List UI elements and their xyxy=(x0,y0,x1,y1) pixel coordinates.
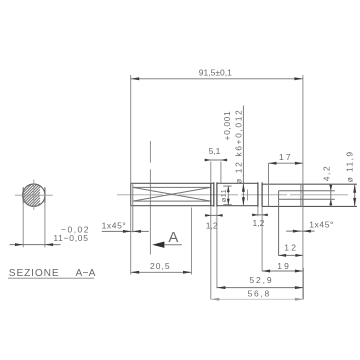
dim o12k6 arrows xyxy=(242,183,245,192)
svg-text:11−0,05: 11−0,05 xyxy=(53,233,88,243)
section A-A centerline horizontal xyxy=(15,194,53,196)
dim 17 dimension line xyxy=(269,162,303,164)
end of flats line + long extension down to 56,8 xyxy=(210,162,212,300)
main centerline of shaft xyxy=(117,194,348,196)
title underline xyxy=(8,277,94,279)
dim o11 tick bottom xyxy=(223,204,231,206)
flats region inner top line xyxy=(133,186,211,188)
right end face + long extension line xyxy=(302,75,304,300)
dim 1,2 right arrows xyxy=(252,214,268,216)
groove 2 right wall + extension down to 19 xyxy=(261,182,263,206)
flats cross diagonal 2 xyxy=(133,187,211,201)
svg-text:1x45°: 1x45° xyxy=(309,219,334,229)
dim 1,2 left arrows xyxy=(205,214,223,216)
dim 12 arrows xyxy=(279,254,287,257)
svg-text:91,5±0,1: 91,5±0,1 xyxy=(199,67,232,77)
centerline tick in mid section xyxy=(247,190,249,201)
shaft right section top edge + extension xyxy=(262,183,357,185)
dim 17 arrows xyxy=(269,162,277,165)
chamfer label 1x45 right leader xyxy=(286,230,314,232)
svg-text:SEZIONE: SEZIONE xyxy=(9,268,60,279)
svg-text:5,1: 5,1 xyxy=(209,146,221,156)
chamfer label 1x45 left leader xyxy=(102,230,149,232)
dim 5,1 extension right xyxy=(220,162,222,184)
svg-text:ø 12 k6+0,012: ø 12 k6+0,012 xyxy=(233,109,243,184)
svg-text:1x45°: 1x45° xyxy=(102,220,127,230)
groove 1 left wall xyxy=(213,182,215,206)
section A-A centerline vertical xyxy=(33,180,35,210)
dim 52,9 extension right low xyxy=(302,268,304,300)
axial hole top line xyxy=(279,190,335,192)
dim 11 extension line right xyxy=(44,203,46,248)
dim 20,5 dimension line xyxy=(131,271,192,273)
dim o11 tick top xyxy=(223,185,231,187)
dim 91,5 dimension line xyxy=(131,78,303,80)
svg-text:+0,001: +0,001 xyxy=(222,111,232,141)
dim 19 dimension line xyxy=(262,270,303,272)
shaft top edge left sections xyxy=(131,182,214,184)
dim 11 extension line left xyxy=(22,203,24,248)
svg-text:A: A xyxy=(168,229,178,246)
flats cross diagonal 1 xyxy=(133,187,211,201)
dim 52,9 dimension line xyxy=(217,287,304,289)
dim 11 dimension line xyxy=(10,244,61,246)
dim o11,9 dimension line xyxy=(354,184,356,206)
dim 91,5 arrows xyxy=(131,77,140,80)
svg-text:12: 12 xyxy=(284,243,298,253)
shaft bottom edge left sections xyxy=(131,205,214,207)
svg-text:17: 17 xyxy=(279,152,293,162)
dim o11 dimension line xyxy=(227,186,229,205)
chamfer label 1x45 right arrows xyxy=(293,230,301,233)
axial hole bottom line xyxy=(279,198,335,200)
right chamfer line xyxy=(300,184,302,206)
svg-text:19: 19 xyxy=(277,261,291,271)
dim 20,5 extension right xyxy=(191,208,193,275)
dim 11 arrow right xyxy=(45,243,53,246)
section A-A flat right xyxy=(44,187,46,203)
dim 56,8 arrows xyxy=(211,298,220,301)
svg-text:52,9: 52,9 xyxy=(249,275,273,285)
dim 4,2 dimension line xyxy=(330,184,332,206)
section A-A hatch xyxy=(10,157,40,239)
left chamfer line xyxy=(132,183,134,232)
dim o11 arrows xyxy=(227,186,230,192)
dim 5,1 dimension line xyxy=(204,159,227,161)
dim 12 dimension line xyxy=(279,254,303,256)
dim 11 arrow left xyxy=(15,243,23,246)
svg-text:ø 11,9: ø 11,9 xyxy=(345,151,355,183)
svg-text:1,2: 1,2 xyxy=(253,218,265,228)
dim 52,9 arrows xyxy=(217,286,226,289)
chamfer label 1x45 left arrows xyxy=(123,230,131,233)
svg-text:A−A: A−A xyxy=(76,268,96,279)
svg-text:20,5: 20,5 xyxy=(150,261,171,271)
dim o12k6 dimension line vertical xyxy=(242,106,244,206)
dim o11,9 arrows xyxy=(353,184,356,193)
dim 20,5 arrows xyxy=(131,271,140,274)
svg-text:56,8: 56,8 xyxy=(248,289,271,299)
groove 1 right wall + extension down to 52,9 xyxy=(216,182,218,206)
svg-text:1,2: 1,2 xyxy=(206,221,218,231)
dim 5,1 arrows xyxy=(205,159,211,162)
flats region inner bottom line xyxy=(133,200,211,202)
section A-A flat left xyxy=(22,187,24,203)
groove 2 left wall xyxy=(257,182,259,206)
svg-text:4,2: 4,2 xyxy=(322,165,332,182)
shaft right section bottom edge + extension xyxy=(262,205,357,207)
section cut arrow A xyxy=(152,242,164,248)
svg-text:ø11: ø11 xyxy=(219,189,228,202)
cutting plane line A xyxy=(149,141,151,163)
dim 4,2 arrows xyxy=(329,185,332,191)
step line at 17 from right end xyxy=(268,163,270,206)
dim 56,8 dimension line xyxy=(211,298,304,300)
axial hole bottom face + extension down to 12 dim xyxy=(278,191,280,256)
shaft left end face + extension line down xyxy=(130,75,132,275)
dim 19 arrows xyxy=(262,270,270,273)
